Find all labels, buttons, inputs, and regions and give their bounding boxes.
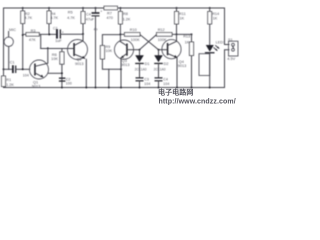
node Q3 base — [139, 49, 141, 51]
transistor Q4 9013 — [162, 40, 181, 59]
svg-text:+: + — [62, 30, 64, 34]
capacitor C1 (mic coupling) — [3, 68, 5, 70]
node Q1 collector to Q2 base — [47, 47, 49, 49]
svg-text:R5: R5 — [68, 11, 73, 15]
svg-text:C1: C1 — [10, 60, 15, 64]
resistor R12 100K (cross-coupling) — [157, 33, 173, 37]
svg-text:10K: 10K — [105, 49, 112, 53]
svg-text:C4: C4 — [86, 12, 91, 16]
capacitor C6 104 — [155, 77, 163, 78]
svg-text:C3: C3 — [144, 78, 149, 82]
resistor R10 100K (cross-coupling) — [119, 33, 121, 35]
svg-text:47K: 47K — [29, 38, 36, 42]
svg-text:R11: R11 — [179, 12, 186, 16]
resistor R5 — [82, 7, 84, 9]
svg-text:+: + — [100, 10, 102, 14]
svg-text:1K: 1K — [213, 16, 218, 20]
svg-text:1uF: 1uF — [55, 39, 62, 43]
svg-text:9013: 9013 — [121, 63, 129, 67]
transistor Q3 9013 — [114, 40, 133, 59]
svg-text:R2: R2 — [25, 12, 30, 16]
svg-text:100K: 100K — [131, 38, 140, 42]
svg-text:470: 470 — [107, 16, 113, 20]
capacitor C3 100 (bypass) — [59, 78, 66, 79]
resistor R13 1K — [191, 33, 193, 35]
svg-text:100: 100 — [66, 81, 72, 85]
svg-text:2CK1A0: 2CK1A0 — [154, 68, 166, 72]
wire top supply rail — [4, 7, 225, 9]
svg-text:4.7K: 4.7K — [24, 16, 32, 20]
svg-text:R8: R8 — [123, 12, 128, 16]
svg-text:R13: R13 — [183, 35, 190, 39]
svg-text:47uF: 47uF — [86, 17, 95, 21]
svg-text:C2: C2 — [53, 26, 57, 30]
resistor R6 10K (base network) — [61, 49, 63, 52]
svg-text:D1: D1 — [145, 62, 150, 66]
svg-text:9013: 9013 — [75, 62, 83, 66]
svg-text:9013: 9013 — [178, 64, 186, 68]
svg-text:104: 104 — [144, 82, 150, 86]
wire Q2 base — [41, 48, 74, 50]
svg-text:2CK1A0: 2CK1A0 — [135, 68, 147, 72]
node Q2 collector / R5 junction — [82, 33, 84, 35]
node Q4 base — [158, 49, 160, 51]
svg-text:MIC: MIC — [9, 28, 16, 32]
LED LED1 — [206, 45, 214, 52]
resistor R3 47K — [22, 34, 24, 36]
svg-text:4b: 4b — [94, 28, 98, 32]
wire cross coupling X — [140, 35, 159, 50]
wire right battery column — [225, 8, 230, 88]
svg-text:1K: 1K — [180, 17, 185, 21]
wire left border column — [3, 8, 5, 88]
svg-text:9013: 9013 — [32, 85, 40, 89]
node R4 / R3 / C2 junction — [48, 33, 50, 35]
svg-text:LED1: LED1 — [216, 41, 226, 45]
resistor R4 — [48, 7, 50, 9]
svg-text:104: 104 — [163, 82, 169, 86]
capacitor C2 1uF (coupling) — [56, 29, 58, 39]
svg-text:R10: R10 — [130, 28, 137, 32]
svg-text:1.2K: 1.2K — [123, 18, 131, 22]
resistor R9 10K — [102, 35, 120, 46]
transistor Q1 9013 — [30, 60, 49, 79]
diode D1 — [139, 50, 141, 56]
svg-text:R14: R14 — [212, 12, 219, 16]
resistor R2 — [22, 7, 24, 9]
junction dots on bottom rail — [61, 87, 63, 89]
device box (speaker) — [199, 54, 210, 76]
svg-text:4.7K: 4.7K — [67, 16, 75, 20]
svg-text:Q3: Q3 — [122, 59, 127, 63]
svg-text:D2: D2 — [164, 62, 169, 66]
svg-text:1K: 1K — [185, 41, 190, 45]
resistor R8 1.2K — [119, 7, 121, 9]
transistor Q2 9013 — [68, 40, 88, 60]
svg-text:10K: 10K — [51, 57, 58, 61]
resistor R11 1K — [176, 7, 178, 9]
resistor R14 1K — [209, 7, 211, 9]
svg-text:R12: R12 — [158, 28, 165, 32]
resistor R1 1.2K (in left border) — [2, 76, 6, 87]
svg-text:R1: R1 — [6, 78, 11, 82]
wire riser to base line — [40, 35, 42, 49]
svg-text:4.7K: 4.7K — [50, 16, 58, 20]
diode D2 — [158, 50, 160, 56]
svg-text:R3: R3 — [31, 29, 36, 33]
resistor R7 470 (series in top rail) — [104, 6, 118, 10]
wire bottom ground rail — [4, 87, 225, 89]
svg-text:R4: R4 — [51, 12, 56, 16]
svg-text:4.5V: 4.5V — [227, 57, 235, 61]
svg-text:http://www.cndzz.com/: http://www.cndzz.com/ — [159, 98, 236, 105]
svg-text:电子电路网: 电子电路网 — [158, 87, 193, 96]
svg-text:C4: C4 — [163, 78, 168, 82]
node emitter tie — [61, 72, 63, 74]
svg-text:1.2K: 1.2K — [6, 83, 14, 87]
capacitor C4 47uF (rail filter) — [95, 7, 97, 9]
svg-text:104: 104 — [23, 73, 29, 77]
capacitor C5 104 — [136, 77, 144, 78]
